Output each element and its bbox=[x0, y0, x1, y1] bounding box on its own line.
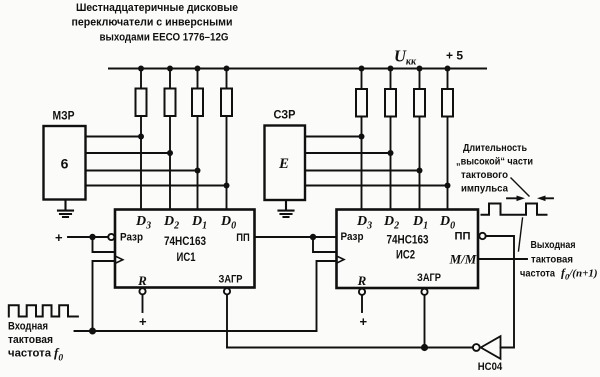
leader from pulse to output label bbox=[519, 218, 523, 251]
svg-text:Разр: Разр bbox=[120, 232, 143, 244]
wire R2 to D2 of U1 bbox=[169, 116, 171, 210]
U1 R inversion bubble bbox=[139, 288, 145, 294]
svg-text:частота: частота bbox=[520, 268, 555, 280]
annotation: pulse width text bbox=[456, 142, 533, 195]
wire МЗР bit1 to node bbox=[86, 136, 142, 138]
node B junction dot bbox=[310, 234, 316, 240]
junction dots on bus bbox=[138, 66, 451, 72]
svg-text:M/M: M/M bbox=[449, 252, 477, 267]
switch S1 МЗР bbox=[44, 111, 86, 200]
resistor R5 bbox=[356, 69, 367, 117]
junction dot СЗР bit1 bbox=[359, 134, 365, 140]
resistor R8 bbox=[442, 69, 453, 117]
svg-text:Входная: Входная bbox=[8, 321, 48, 333]
wire R7 to D1 of U2 bbox=[419, 117, 421, 210]
wire M/M output leader bbox=[478, 258, 527, 260]
ground under МЗР bbox=[58, 200, 73, 218]
svg-text:тактовая: тактовая bbox=[8, 334, 53, 346]
wire U1 ПП to U2 Разр bbox=[255, 236, 337, 238]
U2 ПП inversion bubble bbox=[479, 233, 485, 239]
resistor R3 bbox=[192, 69, 203, 117]
U2 clock input chevron bbox=[337, 256, 345, 263]
svg-text:ПП: ПП bbox=[236, 232, 250, 244]
wire ЗАГР net from inverter output to U1 ЗАГР bbox=[227, 347, 473, 349]
resistor R2 bbox=[165, 69, 176, 117]
svg-text:ЗАГР: ЗАГР bbox=[417, 272, 441, 284]
input clock waveform bbox=[9, 305, 78, 316]
wire U2 ПП to inverter input bbox=[486, 236, 514, 348]
wire U1 ЗАГР down bbox=[226, 294, 228, 347]
svg-text:E: E bbox=[278, 156, 289, 172]
junction dot СЗР bit4 bbox=[445, 183, 451, 189]
label + at U2 R bbox=[360, 314, 368, 329]
wire R6 to D2 of U2 bbox=[390, 117, 392, 210]
label +5 bbox=[446, 49, 463, 63]
wire node A to U1 T enable bbox=[93, 237, 116, 252]
svg-text:74НС163: 74НС163 bbox=[387, 233, 429, 247]
svg-text:выходами ЕЕСО 1776–12G: выходами ЕЕСО 1776–12G bbox=[100, 32, 229, 44]
junction dot МЗР bit1 bbox=[138, 134, 144, 140]
wire МЗР bit2 to node bbox=[86, 152, 171, 154]
node A junction dot bbox=[89, 234, 95, 240]
resistor R1 bbox=[136, 69, 147, 117]
junction dot ЗАГР net bbox=[421, 344, 428, 351]
wire input clock line bbox=[75, 330, 317, 332]
wire R5 to D3 of U2 bbox=[361, 117, 363, 210]
U1 ЗАГР inversion bubble bbox=[224, 288, 230, 294]
svg-text:переключатели с инверсными: переключатели с инверсными bbox=[72, 17, 233, 29]
U1 clock input chevron bbox=[115, 256, 123, 263]
junction dot СЗР bit2 bbox=[388, 150, 394, 156]
svg-text:R: R bbox=[137, 273, 147, 288]
IC U2 74HC163 ИС2 bbox=[337, 210, 479, 289]
wire R4 to D0 of U1 bbox=[226, 116, 228, 210]
svg-text:+: + bbox=[139, 314, 147, 329]
svg-text:Выходная: Выходная bbox=[531, 239, 576, 251]
junction dot СЗР bit3 bbox=[417, 168, 423, 174]
wire СЗР bit3 to node bbox=[305, 170, 420, 172]
svg-text:R: R bbox=[357, 273, 367, 288]
switch S2 СЗР bbox=[265, 110, 306, 201]
inverter U3 НС04 bbox=[473, 336, 503, 373]
junction dot МЗР bit4 bbox=[224, 183, 230, 189]
svg-text:частота: частота bbox=[8, 348, 52, 360]
U2 R inversion bubble bbox=[359, 289, 365, 295]
wire МЗР bit3 to node bbox=[86, 170, 198, 172]
wire СЗР bit2 to node bbox=[305, 152, 391, 154]
svg-text:„высокой“ части: „высокой“ части bbox=[456, 156, 533, 168]
resistor R7 bbox=[414, 69, 425, 117]
label + at U1 enable bbox=[55, 230, 63, 245]
junction dot МЗР bit3 bbox=[195, 168, 201, 174]
svg-text:ЗАГР: ЗАГР bbox=[219, 274, 243, 286]
wire clock to U1 clock bbox=[93, 261, 116, 331]
wire U2 R to + bbox=[361, 295, 363, 312]
svg-text:тактового: тактового bbox=[461, 169, 508, 181]
svg-text:Длительность: Длительность bbox=[463, 142, 527, 154]
wire R1 to D3 of U1 bbox=[140, 116, 142, 210]
output pulse waveform bbox=[482, 204, 547, 215]
wire СЗР bit1 to node bbox=[305, 136, 362, 138]
junction dot МЗР bit2 bbox=[167, 150, 173, 156]
U2 ЗАГР inversion bubble bbox=[421, 289, 427, 295]
wire R3 to D1 of U1 bbox=[197, 116, 199, 210]
svg-text:СЗР: СЗР bbox=[274, 110, 296, 122]
svg-text:ИС1: ИС1 bbox=[177, 250, 196, 264]
svg-text:НС04: НС04 bbox=[478, 361, 503, 373]
width arrow right bbox=[537, 196, 553, 202]
annotation: output clock frequency bbox=[520, 239, 598, 282]
annotation: input clock frequency bbox=[8, 321, 63, 364]
label + at U1 R bbox=[139, 314, 147, 329]
resistor R6 bbox=[385, 69, 396, 117]
svg-text:+ 5: + 5 bbox=[446, 49, 463, 63]
junction dot clock at node A column bbox=[89, 328, 96, 335]
svg-text:ИС2: ИС2 bbox=[396, 248, 415, 262]
wire clock to U2 clock bbox=[317, 261, 337, 331]
annotation: switches description bbox=[72, 2, 239, 44]
wire U1 R to + bbox=[142, 294, 144, 312]
leader from text to pulse bbox=[511, 178, 529, 196]
label Uкк bbox=[394, 47, 417, 68]
wire + to U1 Разр bbox=[68, 236, 108, 238]
power bus +5 bbox=[109, 68, 486, 70]
wire МЗР bit4 to node bbox=[86, 185, 227, 187]
width arrow left bbox=[507, 196, 525, 202]
svg-text:+: + bbox=[360, 314, 368, 329]
wire СЗР bit4 to node bbox=[305, 185, 448, 187]
svg-text:6: 6 bbox=[61, 156, 69, 172]
wire node B to U2 T enable bbox=[313, 237, 337, 252]
svg-text:+: + bbox=[55, 230, 63, 245]
wire U2 ЗАГР down bbox=[424, 295, 426, 348]
svg-text:ПП: ПП bbox=[455, 231, 471, 243]
ground under СЗР bbox=[279, 200, 294, 217]
svg-text:импульса: импульса bbox=[461, 183, 508, 195]
IC U1 74HC163 ИС1 bbox=[115, 210, 255, 289]
svg-text:Разр: Разр bbox=[341, 231, 364, 243]
svg-text:тактовая: тактовая bbox=[531, 254, 573, 266]
svg-text:Шестнадцатеричные дисковые: Шестнадцатеричные дисковые bbox=[76, 2, 238, 14]
svg-text:МЗР: МЗР bbox=[53, 111, 75, 123]
wire R8 to D0 of U2 bbox=[447, 117, 449, 210]
resistor R4 bbox=[221, 69, 232, 117]
U1 Разр inversion bubble bbox=[108, 234, 114, 240]
svg-text:74НС163: 74НС163 bbox=[164, 234, 206, 248]
